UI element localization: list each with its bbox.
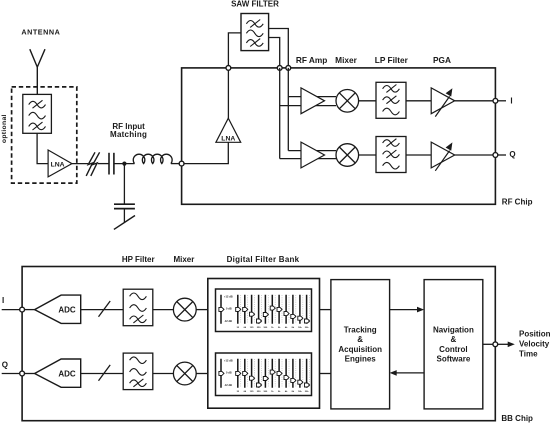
- svg-text:32: 32: [237, 327, 240, 329]
- ADC I: [35, 295, 81, 323]
- svg-text:125: 125: [250, 391, 254, 393]
- svg-text:32: 32: [237, 391, 240, 393]
- svg-text:Position: Position: [519, 329, 550, 338]
- arrow tracking to navigation: [390, 307, 425, 313]
- svg-text:250: 250: [257, 391, 261, 393]
- break symbol (double lightning): [86, 152, 99, 176]
- op-amp RF Amp Q: [301, 142, 325, 168]
- svg-text:0 dB: 0 dB: [226, 307, 232, 311]
- op-amp PGA Q: [431, 142, 455, 171]
- wire SAW left to node: [228, 33, 241, 68]
- svg-text:RF Amp: RF Amp: [296, 55, 328, 65]
- capacitor C1 (series): [109, 153, 114, 175]
- wire LP I to PGA I: [406, 100, 431, 102]
- svg-text:500: 500: [264, 391, 268, 393]
- svg-text:HP Filter: HP Filter: [122, 255, 155, 264]
- wire LNA base to input pin: [182, 142, 229, 163]
- svg-text:250: 250: [257, 327, 261, 329]
- svg-text:Time: Time: [519, 349, 538, 358]
- svg-text:8k: 8k: [292, 391, 295, 393]
- ground: [114, 216, 135, 230]
- wire mixer I to LP filter I: [359, 100, 376, 102]
- svg-text:SAW FILTER: SAW FILTER: [231, 0, 279, 8]
- wire bus left vertical (to amp I lower / amp Q lower): [280, 68, 336, 159]
- svg-text:-12 dB: -12 dB: [224, 383, 232, 387]
- svg-text:+12 dB: +12 dB: [224, 294, 233, 298]
- band-pass filter F1 (antenna filter): [23, 94, 52, 133]
- op-amp LNA (optional): [48, 150, 72, 177]
- band-pass filter SAW: [241, 14, 269, 51]
- svg-text:RF Chip: RF Chip: [502, 198, 533, 207]
- svg-text:Control: Control: [439, 345, 467, 354]
- svg-text:0 dB: 0 dB: [226, 371, 232, 375]
- antenna symbol: [30, 49, 45, 94]
- svg-text:ADC: ADC: [58, 369, 76, 378]
- wire node to LNA apex: [227, 68, 229, 118]
- wire PGA I to pin I: [455, 100, 496, 102]
- node saw lower: [277, 66, 282, 71]
- ADC Q: [35, 359, 81, 387]
- node saw left: [226, 66, 231, 71]
- svg-text:Q: Q: [2, 361, 8, 370]
- node saw upper: [286, 66, 291, 71]
- node RF input pin: [179, 161, 184, 166]
- op-amp LNA U1 (on chip): [216, 118, 241, 142]
- svg-text:+12 dB: +12 dB: [224, 358, 233, 362]
- arrow navigation to tracking: [390, 370, 425, 376]
- wire mixer Q to LP filter Q: [359, 154, 376, 156]
- equalizer panel Q: [216, 353, 312, 396]
- svg-text:8k: 8k: [292, 327, 295, 329]
- svg-text:500: 500: [264, 327, 268, 329]
- svg-text:I: I: [510, 96, 512, 105]
- high-pass filter HP Q: [123, 353, 153, 390]
- node pin Q: [493, 153, 498, 158]
- wire break to capacitor C1: [98, 163, 109, 165]
- svg-text:LP Filter: LP Filter: [375, 55, 409, 65]
- svg-text:optional: optional: [1, 114, 8, 143]
- node pin I (BB): [20, 307, 25, 312]
- low-pass filter LP I: [376, 82, 406, 118]
- node output pin: [493, 342, 498, 347]
- wire ADC Q to HP filter Q: [81, 373, 124, 375]
- wire pin to ADC I: [25, 309, 35, 311]
- wire PGA Q to pin Q: [455, 154, 496, 156]
- svg-text:&: &: [451, 335, 457, 344]
- svg-text:Engines: Engines: [345, 355, 377, 364]
- equalizer panel I: [216, 289, 312, 332]
- svg-text:&: &: [357, 335, 363, 344]
- optional dashed box: [12, 87, 77, 183]
- wire SAW right upper to node: [269, 29, 289, 68]
- svg-text:125: 125: [250, 327, 254, 329]
- svg-text:LNA: LNA: [51, 162, 65, 169]
- svg-text:Q: Q: [509, 150, 515, 159]
- mixer Q: [336, 144, 359, 167]
- wire filter bank to tracking (Q): [320, 373, 331, 375]
- svg-text:Navigation: Navigation: [433, 326, 474, 335]
- svg-text:64: 64: [244, 390, 247, 393]
- svg-text:16k: 16k: [298, 327, 302, 329]
- svg-text:1k: 1k: [271, 327, 274, 329]
- svg-text:2k: 2k: [278, 327, 281, 329]
- wire HP I to mixer I (BB): [153, 309, 174, 311]
- wire pin Q stub: [498, 154, 506, 156]
- wire shunt branch down: [123, 164, 125, 205]
- low-pass filter LP Q: [376, 137, 406, 173]
- mixer Q (BB): [173, 362, 196, 385]
- node pin Q (BB): [20, 371, 25, 376]
- svg-text:Software: Software: [437, 355, 471, 364]
- node junction dot: [122, 162, 126, 166]
- wire pin I stub: [498, 100, 506, 102]
- wire LNA to break symbol: [72, 163, 88, 165]
- wire filter bank to tracking (I): [320, 309, 331, 311]
- wire mixer Q to filter bank: [196, 373, 208, 375]
- RF chip box: [182, 68, 496, 204]
- arrow output: [498, 342, 515, 348]
- svg-text:20k: 20k: [305, 391, 309, 393]
- svg-text:Matching: Matching: [110, 130, 147, 139]
- svg-text:Mixer: Mixer: [335, 55, 357, 65]
- wire pin to ADC Q: [25, 373, 35, 375]
- wire C2 to ground: [123, 209, 125, 222]
- op-amp RF Amp I: [301, 88, 325, 114]
- svg-text:4k: 4k: [285, 390, 288, 393]
- wire I input: [2, 309, 22, 311]
- block Tracking and Acquisition Engines: [331, 280, 390, 409]
- block Navigation and Control Software: [424, 280, 483, 409]
- svg-text:64: 64: [244, 326, 247, 329]
- wire ADC I to HP filter I: [81, 309, 124, 311]
- bus slash Q: [99, 365, 111, 381]
- svg-text:Acquisition: Acquisition: [338, 345, 382, 354]
- wire L1 to RF chip pin: [171, 163, 182, 165]
- svg-text:ANTENNA: ANTENNA: [21, 28, 60, 37]
- svg-text:Tracking: Tracking: [344, 326, 377, 335]
- mixer I: [336, 90, 359, 113]
- svg-text:Velocity: Velocity: [519, 339, 550, 348]
- svg-text:4k: 4k: [285, 326, 288, 329]
- bus slash I: [99, 301, 111, 317]
- svg-text:Digital Filter Bank: Digital Filter Bank: [227, 255, 300, 264]
- svg-text:PGA: PGA: [433, 55, 451, 65]
- wire C1 to node: [114, 163, 135, 165]
- wire navigation to output pin: [483, 343, 496, 345]
- wire HP Q to mixer Q (BB): [153, 373, 174, 375]
- wire mixer I to filter bank: [196, 309, 208, 311]
- svg-text:BB Chip: BB Chip: [501, 414, 533, 423]
- svg-text:2k: 2k: [278, 391, 281, 393]
- BB chip box: [22, 267, 495, 421]
- mixer I (BB): [173, 298, 196, 321]
- svg-text:-12 dB: -12 dB: [224, 319, 232, 323]
- wire filter F1 to LNA: [37, 133, 48, 163]
- wire SAW right lower to node: [269, 38, 280, 68]
- high-pass filter HP I: [123, 289, 153, 326]
- op-amp PGA I: [431, 88, 455, 117]
- digital filter bank box: [208, 279, 320, 409]
- inductor L1: [133, 154, 172, 163]
- node pin I: [493, 98, 498, 103]
- svg-text:1k: 1k: [271, 391, 274, 393]
- svg-text:LNA: LNA: [221, 136, 235, 143]
- svg-text:Mixer: Mixer: [173, 255, 194, 264]
- wire LP Q to PGA Q: [406, 154, 431, 156]
- svg-text:ADC: ADC: [58, 306, 76, 315]
- svg-text:16k: 16k: [298, 391, 302, 393]
- capacitor C2 (shunt): [114, 204, 135, 208]
- wire Q input: [2, 373, 22, 375]
- svg-text:20k: 20k: [305, 327, 309, 329]
- wire bus right vertical (to amp I upper / amp Q upper): [288, 68, 336, 151]
- svg-text:I: I: [2, 296, 4, 305]
